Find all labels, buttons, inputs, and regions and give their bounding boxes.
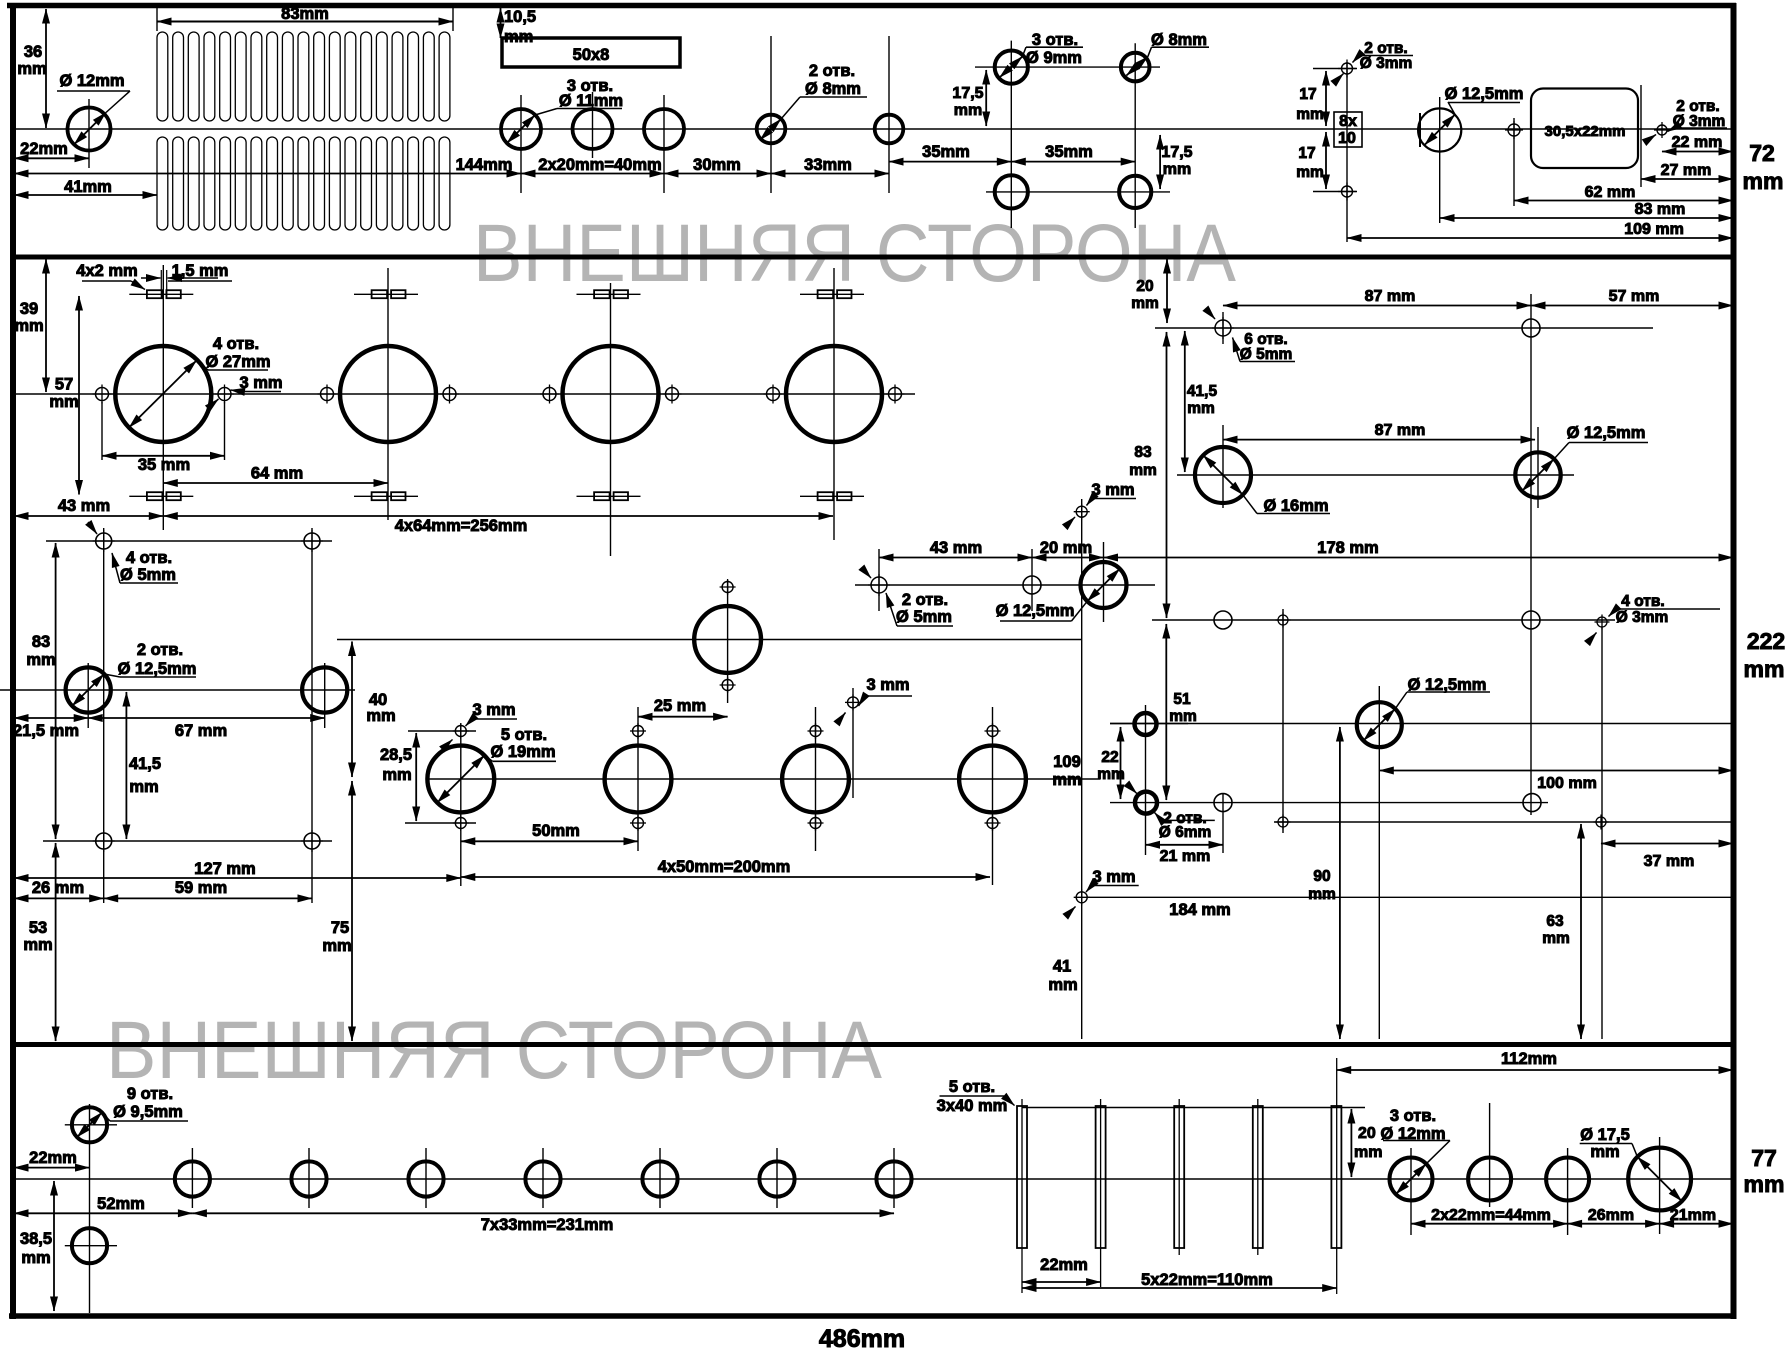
dim 26 mm [14, 897, 104, 899]
svg-text:mm: mm [26, 651, 55, 669]
svg-text:Ø 12,5mm: Ø 12,5mm [118, 660, 197, 678]
dim 39 mm [45, 259, 47, 392]
row 723 long axis line [1110, 723, 1733, 725]
svg-text:30mm: 30mm [693, 156, 741, 174]
right column axis x=1531 [1530, 294, 1532, 815]
rect pattern top axis line [46, 540, 332, 542]
svg-text:22mm: 22mm [20, 140, 68, 158]
svg-text:Ø 5mm: Ø 5mm [1240, 346, 1293, 363]
svg-text:57 mm: 57 mm [1609, 288, 1660, 305]
hole D12,5 bold circle right-low [1357, 702, 1402, 747]
holes 2x D3mm upper crossed circle [1338, 60, 1356, 78]
svg-text:mm: mm [1744, 656, 1785, 682]
dim 17 mm lower [1325, 132, 1327, 189]
hole D9mm top-left circle [995, 51, 1028, 84]
D3 pair axis line [1346, 62, 1348, 242]
svg-text:39: 39 [20, 300, 38, 318]
fuse clip slots below D27 circle 4 [800, 492, 864, 500]
svg-text:mm: mm [129, 778, 158, 796]
svg-text:Ø 12,5mm: Ø 12,5mm [996, 602, 1075, 620]
hole 3mm near circle 4 [845, 694, 861, 710]
dim 109 mm [1347, 237, 1733, 239]
svg-text:222: 222 [1747, 628, 1785, 654]
hole D12,5 bold circle right [302, 667, 347, 712]
dim 62 mm [1514, 200, 1733, 202]
hole plain circle (1223,802) [1214, 794, 1232, 812]
svg-text:2x22mm=44mm: 2x22mm=44mm [1431, 1207, 1551, 1224]
dim 41,5 mm left [125, 692, 127, 839]
svg-text:mm: mm [23, 936, 52, 954]
D16 axis line segments [1222, 312, 1224, 344]
svg-text:127 mm: 127 mm [194, 860, 255, 878]
hole D12mm circle [68, 108, 111, 151]
D19 axis lines [460, 724, 462, 887]
hole D12 circle 3 [1546, 1158, 1589, 1201]
panel3 row centerline [12, 1178, 1733, 1180]
svg-text:17,5: 17,5 [952, 85, 983, 102]
dim 43 mm bottom left [14, 515, 163, 517]
D19 row centerline [428, 778, 1100, 780]
jack hole D19 circle 1 [427, 746, 494, 813]
axis x=1602 vertical [1601, 627, 1603, 1039]
hole D12,5 bold circle left [66, 667, 111, 712]
svg-text:22: 22 [1101, 749, 1118, 766]
row 822 axis line [1274, 821, 1733, 823]
svg-text:53: 53 [29, 919, 47, 937]
bottom right axis lines [1410, 1148, 1412, 1235]
row with 2 otv. D5mm and D12,5 [855, 584, 1155, 586]
svg-text:mm: mm [1744, 1171, 1785, 1197]
dim 178 mm [1104, 557, 1734, 559]
svg-text:144mm: 144mm [456, 156, 513, 174]
rounded rectangular hole 30,5x22mm [1531, 89, 1638, 169]
dim 4x64mm=256mm [163, 515, 833, 517]
dim 50mm [461, 840, 638, 842]
svg-text:4x2 mm: 4x2 mm [76, 262, 137, 280]
svg-text:2 отв.: 2 отв. [902, 591, 948, 609]
ventilation slots 5x 3x40mm [1017, 1106, 1027, 1248]
dim 144mm [14, 173, 521, 175]
svg-text:41mm: 41mm [64, 178, 112, 196]
svg-text:64 mm: 64 mm [251, 465, 303, 483]
svg-text:3 mm: 3 mm [1091, 481, 1134, 499]
dim 35 mm (D3 side holes) [101, 402, 103, 460]
svg-text:21mm: 21mm [1670, 1207, 1716, 1224]
svg-text:2x20mm=40mm: 2x20mm=40mm [538, 156, 661, 174]
long vertical axis line x=1081 [1081, 499, 1083, 1039]
svg-text:17: 17 [1299, 86, 1316, 103]
D9,5 left axis lines [89, 1104, 91, 1313]
dim 57 mm [78, 296, 80, 495]
dim 51 mm [1165, 624, 1167, 800]
svg-text:mm: mm [1163, 161, 1191, 178]
svg-text:Ø 5mm: Ø 5mm [120, 566, 176, 584]
svg-text:43 mm: 43 mm [58, 497, 110, 515]
svg-text:4 отв.: 4 отв. [126, 549, 172, 567]
jack hole D19 circle 3 [782, 746, 849, 813]
svg-text:5 отв.: 5 отв. [949, 1078, 995, 1096]
svg-text:9 отв.: 9 отв. [127, 1085, 173, 1103]
dim 28,5 mm [408, 730, 476, 732]
svg-text:2 отв.: 2 отв. [809, 62, 855, 80]
D12,5 pair vertical axes [87, 663, 89, 728]
jack hole D19 circle 4 [959, 746, 1026, 813]
row3 axis line [1152, 619, 1615, 621]
svg-text:83: 83 [1134, 444, 1152, 461]
hole D17,5 circle [1628, 1148, 1691, 1211]
slot top extension line [1022, 1107, 1365, 1109]
svg-text:mm: mm [1542, 930, 1570, 947]
D12,5 pair horizontal axis [0, 689, 355, 691]
svg-text:3 mm: 3 mm [472, 701, 515, 719]
dim 22 mm right section [1120, 727, 1122, 799]
slot center extension lines [1021, 1099, 1023, 1293]
svg-text:mm: mm [954, 102, 982, 119]
svg-text:Ø 12,5mm: Ø 12,5mm [1445, 85, 1524, 103]
svg-text:mm: mm [1129, 462, 1157, 479]
hole D12,5 circle row2 [1515, 452, 1560, 497]
axis x=1283 vertical [1282, 609, 1284, 833]
dim 37 mm [1601, 843, 1733, 845]
svg-text:22 mm: 22 mm [1672, 134, 1723, 151]
dim 40 mm [351, 642, 353, 778]
dim 22mm [14, 157, 89, 159]
svg-text:63: 63 [1546, 913, 1564, 930]
D12,5 diameter arrow [1425, 115, 1456, 146]
dim 52mm [14, 1212, 192, 1214]
outer frame right border [1731, 3, 1737, 1319]
svg-text:5x22mm=110mm: 5x22mm=110mm [1141, 1271, 1273, 1289]
dim 20 mm (top right) [1166, 259, 1168, 323]
panel separator line 2 [10, 1042, 1736, 1047]
svg-text:20: 20 [1358, 1125, 1376, 1142]
svg-text:1,5 mm: 1,5 mm [172, 262, 229, 280]
svg-text:50x8: 50x8 [573, 46, 610, 64]
svg-text:3 mm: 3 mm [866, 676, 909, 694]
svg-text:35mm: 35mm [922, 143, 970, 161]
dim 26mm [1568, 1223, 1660, 1225]
connector hole D27 circle 3 [563, 346, 659, 442]
svg-text:8x: 8x [1339, 113, 1357, 130]
dim 20 mm (middle) [1032, 557, 1104, 559]
dim 43 mm (middle) [879, 557, 1032, 559]
svg-text:mm: mm [366, 707, 395, 725]
svg-text:83 mm: 83 mm [1635, 201, 1686, 218]
rect pattern vertical axis lines [103, 528, 105, 903]
dim 87 mm row1 [1223, 305, 1531, 307]
svg-text:10: 10 [1338, 130, 1356, 147]
svg-text:30,5x22mm: 30,5x22mm [1545, 123, 1626, 140]
dim 1,5 mm slot gap [160, 270, 162, 298]
svg-text:109: 109 [1053, 753, 1081, 771]
D3 side holes of D27 circles [93, 385, 112, 404]
panel separator line 1 [10, 255, 1736, 260]
svg-text:mm: mm [1131, 295, 1159, 312]
dim 21mm [1660, 1223, 1733, 1225]
svg-text:Ø 8mm: Ø 8mm [1151, 31, 1207, 49]
row 184 mm axis line [1087, 896, 1733, 898]
svg-text:mm: mm [14, 317, 43, 335]
svg-text:25 mm: 25 mm [654, 697, 706, 715]
svg-text:4x64mm=256mm: 4x64mm=256mm [395, 517, 528, 535]
hole D9mm bottom-right circle [1119, 176, 1151, 208]
svg-text:mm: mm [1296, 164, 1324, 181]
dim 127 mm [14, 877, 461, 879]
fuse clip slots above D27 circle 2 [354, 290, 418, 298]
svg-text:3 mm: 3 mm [239, 374, 282, 392]
holes 2x D3mm lower crossed circle [1338, 183, 1356, 201]
ventilation slot grid row 1 [157, 32, 450, 121]
dim 7x33mm=231mm [192, 1212, 894, 1214]
row of 7 D9,5 holes [175, 1161, 210, 1196]
dim 53 mm [55, 843, 57, 1041]
dim 22mm slots [1022, 1281, 1101, 1283]
svg-text:62 mm: 62 mm [1585, 184, 1636, 201]
D3 holes above/below D19 circles [453, 723, 469, 739]
jack hole D19 raised circle [694, 606, 761, 673]
connector hole D27 circle 1 [115, 346, 211, 442]
svg-text:mm: mm [1187, 400, 1215, 417]
svg-text:184 mm: 184 mm [1169, 901, 1230, 919]
D16 diameter arrow [1203, 455, 1243, 495]
dim 27 mm [1641, 178, 1733, 180]
row3 holes [1214, 611, 1232, 629]
outer frame left border [10, 3, 16, 1319]
svg-text:486mm: 486mm [819, 1325, 905, 1353]
hole 6 otv. D5 crossed circle row1 [1212, 317, 1234, 339]
svg-text:Ø 11mm: Ø 11mm [559, 92, 623, 110]
dim 35mm left [889, 161, 1011, 163]
svg-text:20: 20 [1136, 278, 1153, 295]
svg-text:41: 41 [1053, 958, 1071, 976]
svg-text:59 mm: 59 mm [175, 879, 227, 897]
svg-text:20 mm: 20 mm [1040, 539, 1092, 557]
svg-text:2 отв.: 2 отв. [137, 641, 183, 659]
panel2 main row centerline [12, 393, 915, 395]
row 822 crossed holes [1276, 815, 1291, 830]
outer frame bottom border [9, 1313, 1736, 1319]
outer frame top border [7, 3, 1736, 9]
svg-text:mm: mm [1743, 168, 1784, 194]
svg-text:mm: mm [1169, 708, 1197, 725]
dim 83 mm left [55, 543, 57, 839]
fuse clip slots above D27 circle 3 [577, 290, 641, 298]
svg-text:Ø 5mm: Ø 5mm [896, 608, 952, 626]
svg-text:ВНЕШНЯЯ СТОРОНА: ВНЕШНЯЯ СТОРОНА [473, 208, 1236, 299]
svg-text:75: 75 [331, 919, 349, 937]
svg-text:21,5 mm: 21,5 mm [13, 722, 79, 740]
svg-text:Ø 12mm: Ø 12mm [59, 72, 124, 90]
svg-text:Ø 6mm: Ø 6mm [1159, 824, 1212, 841]
svg-text:4x50mm=200mm: 4x50mm=200mm [658, 858, 791, 876]
rect pattern bottom axis line [43, 840, 332, 842]
svg-text:3 mm: 3 mm [1092, 868, 1135, 886]
hole D9,5 bottom-left circle [72, 1228, 107, 1263]
svg-text:72: 72 [1749, 140, 1775, 166]
svg-text:41,5: 41,5 [1187, 383, 1218, 400]
D6 pair axis lines [1145, 705, 1147, 855]
svg-text:4 отв.: 4 отв. [1621, 593, 1664, 610]
row hole axis lines [191, 1148, 193, 1208]
svg-text:mm: mm [1048, 976, 1077, 994]
svg-text:87 mm: 87 mm [1375, 422, 1426, 439]
dim 59 mm [104, 897, 312, 899]
svg-text:178 mm: 178 mm [1317, 539, 1378, 557]
jack hole D19 circle 2 [605, 746, 672, 813]
hole D12,5mm circle (top panel) [1418, 108, 1461, 151]
row2 axis line [1177, 474, 1574, 476]
hole 2 otv. D6 bold circle upper [1135, 713, 1157, 735]
svg-text:22mm: 22mm [29, 1149, 77, 1167]
row 802 axis line [1188, 802, 1548, 804]
hole D5 plain circle [1023, 576, 1041, 594]
hole D16mm circle [1195, 447, 1251, 503]
dim 64 mm [163, 482, 388, 484]
fuse clip slots below D27 circle 2 [354, 492, 418, 500]
svg-text:mm: mm [1354, 1144, 1382, 1161]
dim 2x20mm=40mm [521, 173, 664, 175]
dim 75 mm [351, 781, 353, 1041]
hole D12 diameter arrow [74, 113, 106, 145]
svg-text:mm: mm [49, 393, 78, 411]
fuse clip slots above D27 circle 1 [129, 290, 193, 298]
D12,5 row2 diameter arrow [1522, 459, 1554, 491]
svg-text:112mm: 112mm [1501, 1050, 1557, 1068]
svg-text:51: 51 [1173, 691, 1191, 708]
svg-text:5 отв.: 5 отв. [501, 726, 547, 744]
D8 axis lines [770, 36, 772, 193]
svg-text:26 mm: 26 mm [32, 879, 84, 897]
svg-text:mm: mm [21, 1249, 50, 1267]
dim 17,5 mm lower [1159, 135, 1161, 189]
hole D9mm bottom-left circle [995, 175, 1028, 208]
svg-text:109 mm: 109 mm [1624, 221, 1684, 238]
hole D3 center crossed circle [1505, 121, 1523, 139]
svg-text:52mm: 52mm [97, 1195, 145, 1213]
svg-text:38,5: 38,5 [20, 1230, 52, 1248]
dim 20 mm slots [1350, 1109, 1352, 1177]
dim 41,5 mm right section [1184, 331, 1186, 472]
svg-text:77: 77 [1751, 1145, 1777, 1171]
hole D12,5 bold circle (middle) [1081, 562, 1127, 608]
hole 3mm lower on long axis [1074, 889, 1090, 905]
svg-text:mm: mm [17, 60, 46, 78]
svg-text:Ø 8mm: Ø 8mm [805, 80, 861, 98]
dim 100 mm [1379, 770, 1733, 772]
svg-text:90: 90 [1313, 868, 1330, 885]
4-hole pattern axis lines [1010, 41, 1012, 228]
svg-text:mm: mm [1590, 1143, 1619, 1161]
dim 21 mm [1146, 844, 1224, 846]
dim 83 mm right [1440, 217, 1733, 219]
svg-text:Ø 16mm: Ø 16mm [1263, 497, 1328, 515]
hole D12 circle 2 [1468, 1158, 1511, 1201]
svg-text:37 mm: 37 mm [1644, 853, 1695, 870]
dim 22 mm right [1662, 151, 1733, 153]
connector hole D27 circle 2 [340, 346, 436, 442]
dim 17,5 mm upper [985, 70, 987, 126]
svg-text:mm: mm [1052, 771, 1081, 789]
dim 17 mm upper [1325, 71, 1327, 126]
svg-text:28,5: 28,5 [380, 746, 412, 764]
dim 112mm [1337, 1069, 1733, 1071]
svg-text:83mm: 83mm [281, 5, 329, 23]
hole 3mm upper on long axis [1074, 504, 1090, 520]
svg-text:67 mm: 67 mm [175, 722, 227, 740]
dim 22mm bottom panel [14, 1167, 90, 1169]
hole D12 circle 1 [1390, 1158, 1433, 1201]
holes 2x D8mm circles [757, 115, 786, 144]
hole D12 vertical axis line [88, 99, 90, 168]
dim 30mm [664, 173, 771, 175]
hole D9,5 top-left circle [72, 1107, 107, 1142]
fuse clip slots below D27 circle 3 [577, 492, 641, 500]
svg-text:mm: mm [1308, 886, 1336, 903]
dim 35mm right [1011, 161, 1135, 163]
svg-text:Ø 12,5mm: Ø 12,5mm [1567, 424, 1646, 442]
dim 2x22mm=44mm [1411, 1223, 1568, 1225]
svg-text:Ø 9,5mm: Ø 9,5mm [113, 1103, 183, 1121]
hole 2 otv. D3mm right crossed circle [1654, 122, 1670, 138]
axis x=1223 lower segment [1222, 794, 1224, 853]
dim 83mm slots width [156, 8, 158, 31]
dim 38,5 mm [53, 1181, 55, 1311]
D12,5 axis line [1439, 97, 1441, 223]
svg-text:50mm: 50mm [532, 822, 580, 840]
D11 axis lines [520, 95, 522, 193]
connector hole D27 circle 4 [786, 346, 882, 442]
svg-text:7x33mm=231mm: 7x33mm=231mm [481, 1216, 614, 1234]
svg-text:26mm: 26mm [1588, 1207, 1634, 1224]
holes 4 otv. D5mm crossed circles [93, 530, 115, 552]
svg-text:33mm: 33mm [804, 156, 852, 174]
dim 4x50mm=200mm [461, 876, 990, 878]
fuse clip slots below D27 circle 1 [129, 492, 193, 500]
svg-text:mm: mm [322, 937, 351, 955]
panel1 horizontal centerline [12, 128, 1731, 130]
svg-text:Ø 27mm: Ø 27mm [205, 353, 270, 371]
svg-text:100 mm: 100 mm [1537, 775, 1597, 792]
svg-text:17: 17 [1298, 145, 1315, 162]
svg-text:83: 83 [32, 633, 50, 651]
ventilation slot grid row 2 [157, 137, 450, 230]
svg-text:ВНЕШНЯЯ СТОРОНА: ВНЕШНЯЯ СТОРОНА [106, 1005, 882, 1096]
svg-text:mm: mm [382, 766, 411, 784]
dim 63 mm [1580, 824, 1582, 1039]
dim 10,5 mm [500, 8, 502, 38]
dim 41mm [14, 194, 157, 196]
rectangular hole 50x8 [502, 38, 680, 67]
center hole axis line [1513, 118, 1515, 206]
svg-text:27 mm: 27 mm [1661, 162, 1712, 179]
svg-text:Ø 9mm: Ø 9mm [1026, 49, 1082, 67]
svg-text:43 mm: 43 mm [930, 539, 982, 557]
dim 83 mm right section [1166, 332, 1168, 618]
svg-text:35 mm: 35 mm [138, 456, 190, 474]
axis lines for row 585 [878, 549, 880, 611]
dim 33mm [771, 173, 889, 175]
hole 2 otv. D6 bold circle lower [1135, 792, 1157, 814]
svg-text:17,5: 17,5 [1161, 144, 1192, 161]
dim 21,5 mm [14, 717, 88, 719]
dim 36 mm vertical [45, 9, 47, 128]
svg-text:Ø 19mm: Ø 19mm [490, 743, 555, 761]
svg-text:21 mm: 21 mm [1160, 848, 1211, 865]
svg-text:Ø 3mm: Ø 3mm [1616, 609, 1669, 626]
hole D8mm top-right circle [1121, 53, 1150, 82]
svg-text:22mm: 22mm [1040, 1256, 1088, 1274]
hole D5 plain circle row1 right [1522, 319, 1540, 337]
